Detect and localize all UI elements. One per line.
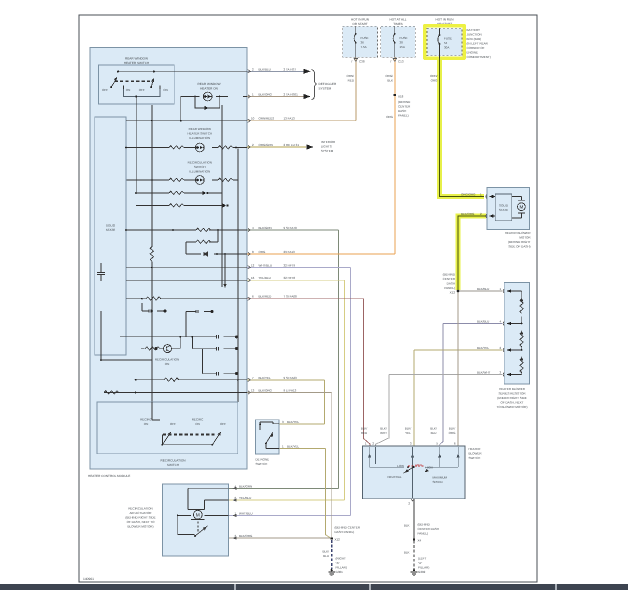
svg-text:(BEHIND: (BEHIND: [398, 100, 411, 104]
svg-text:CENTER: CENTER: [443, 277, 456, 281]
svg-text:MED: MED: [416, 463, 424, 467]
svg-text:140961: 140961: [83, 577, 94, 581]
svg-text:ON: ON: [163, 88, 168, 92]
svg-text:BLU: BLU: [431, 431, 437, 435]
svg-text:BLK/YEL: BLK/YEL: [259, 376, 272, 380]
svg-text:(BEHIND RIGHT: (BEHIND RIGHT: [508, 240, 531, 244]
svg-text:YEL: YEL: [405, 431, 411, 435]
svg-text:BLK/ORG: BLK/ORG: [259, 389, 273, 393]
svg-text:CENTER DASH: CENTER DASH: [418, 527, 440, 531]
svg-text:BLOWER: BLOWER: [469, 452, 483, 456]
svg-text:TO BLOWER MOTOR): TO BLOWER MOTOR): [497, 405, 528, 409]
svg-text:ILLUMINATION: ILLUMINATION: [189, 136, 210, 140]
svg-text:OF DASH, NEXT TO: OF DASH, NEXT TO: [127, 520, 156, 524]
svg-text:OFF: OFF: [220, 422, 226, 426]
svg-text:HEATER: HEATER: [469, 447, 482, 451]
svg-text:SWITCH: SWITCH: [167, 463, 179, 467]
svg-text:HEATER ON: HEATER ON: [200, 87, 218, 91]
svg-text:(UNDER RIGHT SIDE: (UNDER RIGHT SIDE: [497, 396, 527, 400]
svg-text:FUSE: FUSE: [400, 36, 408, 40]
svg-text:RECIRCULATION: RECIRCULATION: [188, 161, 212, 165]
svg-text:M: M: [196, 513, 200, 519]
svg-text:BLK/ORG: BLK/ORG: [259, 93, 273, 97]
svg-text:ORG: ORG: [259, 250, 267, 254]
svg-text:SOLID: SOLID: [106, 224, 116, 228]
svg-text:HOT AT ALL: HOT AT ALL: [389, 18, 406, 22]
svg-text:BLK/: BLK/: [430, 427, 437, 431]
svg-text:SPEED: SPEED: [433, 480, 444, 484]
svg-text:BLK/: BLK/: [405, 427, 412, 431]
svg-text:BLK/WHT: BLK/WHT: [477, 371, 491, 375]
svg-text:DE RONE: DE RONE: [256, 458, 270, 462]
svg-text:OF DASH, NEXT: OF DASH, NEXT: [500, 401, 523, 405]
svg-text:DASH: DASH: [447, 282, 455, 286]
svg-text:16: 16: [251, 276, 255, 280]
svg-text:FUSE: FUSE: [444, 37, 452, 41]
svg-text:YEL/BLU: YEL/BLU: [239, 496, 251, 500]
svg-text:BLK/YEL: BLK/YEL: [287, 420, 300, 424]
svg-text:HEATER CONTROL MODULE: HEATER CONTROL MODULE: [88, 474, 130, 478]
svg-text:ENGINE: ENGINE: [467, 51, 479, 55]
svg-text:BLOWER MOTOR): BLOWER MOTOR): [128, 525, 154, 529]
svg-text:7 SI FA08: 7 SI FA08: [284, 295, 298, 299]
svg-text:7.5A: 7.5A: [361, 45, 367, 49]
svg-text:FUSE: FUSE: [361, 36, 369, 40]
svg-text:(IN LEFT REAR: (IN LEFT REAR: [467, 42, 489, 46]
svg-text:BLU: BLU: [323, 554, 329, 558]
svg-text:ILLUMINATION: ILLUMINATION: [189, 170, 210, 174]
svg-text:YEL/BLU: YEL/BLU: [259, 276, 271, 280]
svg-text:(BEHIND RIGHT SIDE: (BEHIND RIGHT SIDE: [125, 516, 155, 520]
svg-text:HEATER SWITCH: HEATER SWITCH: [124, 61, 149, 65]
svg-text:9 SI FA70: 9 SI FA70: [284, 226, 298, 230]
svg-text:ORG/GRN: ORG/GRN: [259, 143, 273, 147]
svg-text:ON: ON: [165, 362, 170, 366]
svg-text:BLK/YEL: BLK/YEL: [287, 445, 300, 449]
svg-text:ON: ON: [144, 422, 149, 426]
svg-text:"A": "A": [418, 561, 422, 565]
svg-text:SYSTEM: SYSTEM: [319, 87, 332, 91]
svg-text:DASH PANEL): DASH PANEL): [335, 530, 355, 534]
svg-text:COMPARTMENT): COMPARTMENT): [467, 55, 491, 59]
svg-text:OR START: OR START: [352, 22, 367, 26]
svg-text:DEFOGGER: DEFOGGER: [319, 82, 337, 86]
svg-text:STATE: STATE: [499, 208, 508, 212]
svg-text:WHT: WHT: [380, 431, 387, 435]
svg-text:WHT/BLU: WHT/BLU: [259, 263, 273, 267]
svg-text:BLK: BLK: [404, 524, 410, 528]
svg-text:C13: C13: [398, 60, 404, 64]
svg-text:HOT IN RUN: HOT IN RUN: [351, 18, 369, 22]
svg-text:MOTOR: MOTOR: [519, 236, 531, 240]
svg-text:BLK/: BLK/: [380, 427, 387, 431]
svg-text:(BEHIND CENTER: (BEHIND CENTER: [335, 526, 361, 530]
svg-text:(RIGHT: (RIGHT: [336, 557, 346, 561]
svg-text:SIDE OF DASH): SIDE OF DASH): [508, 245, 530, 249]
svg-text:(BEHIND: (BEHIND: [443, 273, 456, 277]
svg-text:RECIRC: RECIRC: [140, 418, 152, 422]
svg-text:WHT/BLU: WHT/BLU: [239, 512, 253, 516]
svg-text:ORG: ORG: [386, 115, 394, 119]
svg-text:2 TA HS7: 2 TA HS7: [284, 67, 297, 71]
svg-text:BLK/BLU: BLK/BLU: [477, 320, 489, 324]
svg-text:BLK/ORG: BLK/ORG: [239, 534, 253, 538]
svg-text:10: 10: [251, 117, 255, 121]
svg-text:CORNER OF: CORNER OF: [467, 46, 485, 50]
svg-text:G301: G301: [336, 570, 344, 574]
svg-text:32 HF79: 32 HF79: [284, 263, 296, 267]
svg-text:PILLAR): PILLAR): [336, 566, 347, 570]
svg-text:PANEL): PANEL): [418, 532, 429, 536]
svg-text:PILLAR): PILLAR): [418, 566, 429, 570]
svg-text:ORN/: ORN/: [430, 74, 438, 78]
svg-text:ON: ON: [195, 422, 200, 426]
svg-text:LIGHTS: LIGHTS: [321, 145, 332, 149]
svg-text:BLK/YEL: BLK/YEL: [477, 346, 490, 350]
svg-text:REAR WINDOW: REAR WINDOW: [125, 57, 148, 61]
svg-text:DASH: DASH: [398, 109, 406, 113]
svg-text:RECIRC: RECIRC: [192, 418, 204, 422]
svg-text:ON: ON: [126, 88, 131, 92]
svg-text:TIMES: TIMES: [393, 22, 402, 26]
svg-text:BATTERY: BATTERY: [467, 28, 481, 32]
svg-text:RECIRCULATION: RECIRCULATION: [155, 358, 179, 362]
svg-text:BLK/RED: BLK/RED: [259, 295, 273, 299]
svg-text:HEATER BLOWER: HEATER BLOWER: [499, 387, 526, 391]
svg-text:G302: G302: [418, 570, 426, 574]
svg-text:ORG: ORG: [449, 431, 457, 435]
svg-text:X12: X12: [335, 538, 341, 542]
svg-text:LOW: LOW: [397, 464, 404, 468]
svg-text:15A: 15A: [400, 45, 405, 49]
svg-text:13 FA13: 13 FA13: [284, 117, 296, 121]
svg-text:BLK/ORG: BLK/ORG: [461, 212, 475, 216]
svg-text:RED: RED: [361, 431, 368, 435]
svg-text:OFF: OFF: [170, 422, 176, 426]
svg-text:RECIRCULATION: RECIRCULATION: [128, 507, 152, 511]
svg-text:RED: RED: [348, 79, 355, 83]
svg-text:OFF: OFF: [139, 88, 145, 92]
svg-text:HEATER SWITCH: HEATER SWITCH: [187, 132, 212, 136]
svg-text:9 SI FA23: 9 SI FA23: [284, 376, 298, 380]
svg-text:INTERIOR: INTERIOR: [321, 140, 336, 144]
svg-text:BLK/BLU: BLK/BLU: [477, 287, 489, 291]
svg-text:SWITCH: SWITCH: [256, 462, 268, 466]
svg-text:SYSTEM: SYSTEM: [321, 149, 334, 153]
svg-text:BLK: BLK: [387, 79, 393, 83]
svg-text:BLK/GRN: BLK/GRN: [259, 226, 272, 230]
svg-text:CENTER: CENTER: [398, 105, 411, 109]
svg-text:REAR WINDOW: REAR WINDOW: [197, 82, 220, 86]
svg-text:NEUTRAL: NEUTRAL: [387, 475, 401, 479]
svg-text:PANEL): PANEL): [444, 286, 455, 290]
svg-text:ORG/ORG: ORG/ORG: [461, 193, 476, 197]
svg-text:HEATER BLOWER: HEATER BLOWER: [505, 231, 532, 235]
svg-text:X4: X4: [418, 539, 422, 543]
svg-text:MAXIMUM: MAXIMUM: [433, 476, 448, 480]
svg-text:ORN/RED2: ORN/RED2: [259, 117, 275, 121]
svg-text:X18: X18: [398, 95, 404, 99]
svg-text:(BEHIND: (BEHIND: [418, 523, 431, 527]
svg-text:2 RE LU 31: 2 RE LU 31: [284, 143, 300, 147]
svg-text:38: 38: [400, 41, 404, 45]
svg-text:RECIRCULATION: RECIRCULATION: [160, 459, 185, 463]
svg-text:SERIES RESISTOR: SERIES RESISTOR: [498, 392, 526, 396]
svg-text:(LEFT: (LEFT: [418, 557, 427, 561]
svg-text:SWITCH: SWITCH: [194, 165, 206, 169]
svg-text:HOT IN RUN: HOT IN RUN: [436, 18, 454, 22]
svg-text:OFF: OFF: [102, 88, 108, 92]
svg-text:ORG: ORG: [431, 79, 439, 83]
svg-text:SWITCH: SWITCH: [469, 456, 481, 460]
svg-text:BOX (BJB): BOX (BJB): [467, 37, 482, 41]
svg-text:X12: X12: [450, 291, 456, 295]
svg-text:ORG/: ORG/: [385, 74, 393, 78]
svg-text:REAR WINDOW: REAR WINDOW: [189, 127, 212, 131]
svg-text:9 LI FA13: 9 LI FA13: [284, 389, 297, 393]
svg-text:"A": "A": [336, 561, 340, 565]
svg-text:C38: C38: [359, 60, 365, 64]
svg-text:30A: 30A: [444, 46, 449, 50]
svg-text:STATE: STATE: [106, 228, 116, 232]
svg-text:AIR ACTUATOR: AIR ACTUATOR: [130, 511, 153, 515]
svg-text:12: 12: [251, 263, 255, 267]
svg-text:JUNCTION: JUNCTION: [467, 33, 482, 37]
svg-text:HIGH: HIGH: [426, 466, 434, 470]
svg-text:M: M: [519, 205, 523, 210]
svg-text:2 TA HS01: 2 TA HS01: [284, 93, 299, 97]
svg-text:32 HF78: 32 HF78: [284, 276, 296, 280]
svg-text:BLK/: BLK/: [361, 427, 368, 431]
svg-text:BLK: BLK: [404, 551, 410, 555]
svg-text:ORN/: ORN/: [347, 74, 355, 78]
svg-text:29 FA13: 29 FA13: [284, 250, 296, 254]
svg-text:BLK/: BLK/: [322, 550, 329, 554]
svg-text:PANEL): PANEL): [398, 114, 409, 118]
svg-text:36: 36: [361, 41, 365, 45]
svg-text:13: 13: [251, 389, 255, 393]
svg-text:BLK/: BLK/: [449, 427, 456, 431]
svg-text:SOLID: SOLID: [499, 204, 509, 208]
svg-text:BLK/GRN: BLK/GRN: [239, 484, 252, 488]
svg-text:BLK/BLU: BLK/BLU: [259, 67, 271, 71]
svg-text:54: 54: [444, 41, 448, 45]
